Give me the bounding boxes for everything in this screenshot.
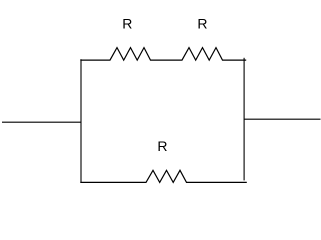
svg-text:R: R bbox=[197, 16, 207, 32]
svg-text:R: R bbox=[122, 16, 132, 32]
svg-text:R: R bbox=[157, 138, 167, 154]
